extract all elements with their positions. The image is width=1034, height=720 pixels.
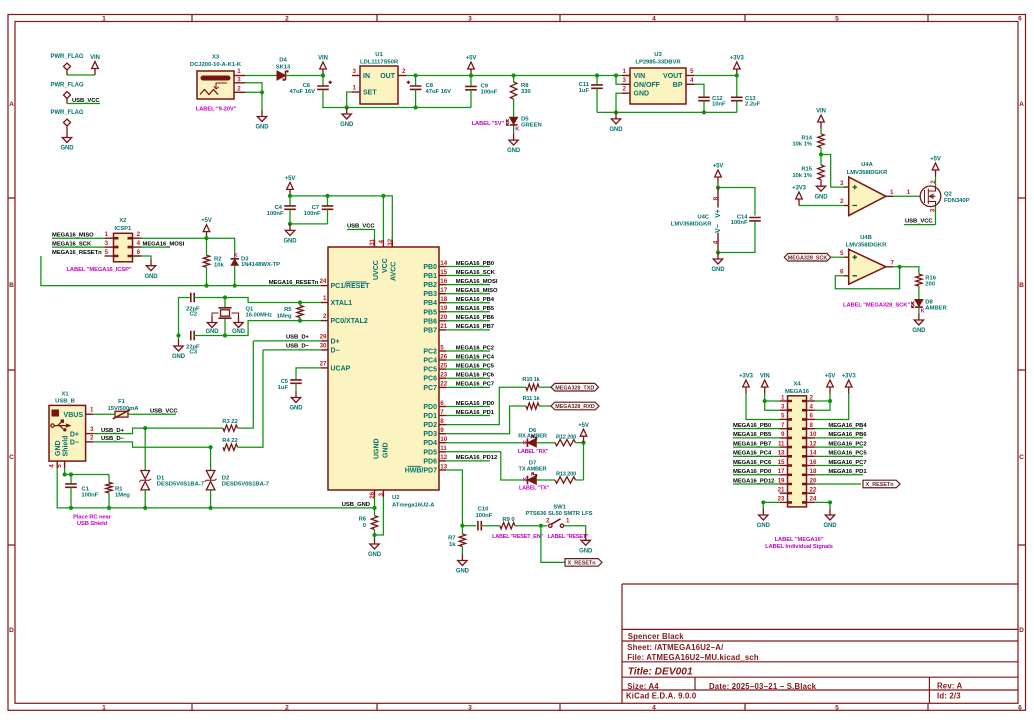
pin 22 of X4 — [807, 492, 815, 494]
svg-text:GND: GND — [609, 127, 623, 133]
svg-text:11: 11 — [440, 445, 447, 452]
svg-text:MEGA16: MEGA16 — [785, 389, 810, 395]
svg-text:C10: C10 — [478, 507, 489, 513]
svg-text:30: 30 — [320, 342, 327, 349]
capacitor C9 100nF — [470, 76, 472, 87]
svg-text:LABEL "MEGA16_ICSP": LABEL "MEGA16_ICSP" — [66, 267, 131, 273]
svg-text:U4C: U4C — [697, 214, 709, 220]
svg-text:PB6: PB6 — [423, 318, 437, 325]
power symbol VIN at C6 — [320, 62, 327, 76]
svg-text:1uF: 1uF — [579, 88, 590, 94]
junction C2/C3 gnd — [176, 333, 180, 337]
svg-text:4: 4 — [810, 404, 814, 411]
svg-text:16: 16 — [810, 459, 817, 466]
capacitor C10 100nF — [478, 521, 481, 531]
wire +3V3 to X4 pin5 — [746, 394, 780, 420]
svg-text:GND: GND — [172, 354, 186, 360]
wire SW1 to gnd — [564, 526, 586, 534]
capacitor C4 100nF — [289, 196, 291, 206]
capacitor C1 100nF — [70, 475, 72, 484]
pin 32 AVCC of U2 — [391, 240, 393, 247]
capacitor C8 47uF 16V — [415, 76, 417, 86]
svg-text:GREEN: GREEN — [521, 122, 542, 128]
wire R4 to riser — [238, 350, 264, 447]
pin 16 of X4 — [807, 465, 815, 467]
pin 6 PD0 of U2 — [439, 406, 446, 408]
svg-text:7: 7 — [440, 409, 444, 416]
pin 1 VIN of U3 — [622, 75, 630, 77]
pin 4 BP of U3 — [686, 83, 694, 85]
svg-text:LABEL "RESET": LABEL "RESET" — [548, 534, 589, 540]
svg-text:10k 1%: 10k 1% — [792, 173, 812, 179]
power symbol +5V main — [468, 62, 475, 76]
svg-text:2: 2 — [402, 68, 406, 75]
wire MEGA16_PC5 X4 — [815, 455, 863, 457]
svg-text:VIN: VIN — [318, 56, 328, 62]
svg-text:R6: R6 — [359, 517, 367, 523]
svg-text:4: 4 — [49, 464, 56, 468]
resistor R5 1Meg — [297, 306, 303, 318]
svg-text:U1: U1 — [375, 52, 383, 58]
pin 18 PB4 of U2 — [439, 302, 446, 304]
wire MEGA16_PB0 — [446, 266, 490, 268]
wire MEGA16_PD12 X4 — [733, 483, 780, 485]
ground below R6 — [370, 538, 379, 550]
pin 7 output of U4B — [886, 266, 893, 268]
svg-text:B: B — [1019, 282, 1024, 289]
svg-text:19: 19 — [778, 477, 785, 484]
svg-text:R5: R5 — [284, 307, 292, 313]
svg-text:LABEL "9-20V": LABEL "9-20V" — [196, 107, 237, 113]
svg-text:X2: X2 — [119, 218, 127, 224]
svg-text:1: 1 — [907, 189, 911, 196]
wire C10 to R9 — [481, 525, 500, 527]
power symbol +3V3 at U3 — [734, 62, 741, 76]
svg-text:2: 2 — [137, 231, 141, 238]
wire MEGA16_PC6 X4 — [733, 465, 780, 467]
svg-text:3: 3 — [840, 180, 844, 187]
junction VCC drop — [381, 194, 385, 198]
svg-text:3: 3 — [353, 68, 357, 75]
pin 7 of X4 — [780, 428, 788, 430]
svg-text:2.2uF: 2.2uF — [745, 102, 761, 108]
wire C2 right to XTAL1 node — [194, 298, 321, 303]
wire MEGA16_MISO — [446, 293, 490, 295]
wire VCC drop — [382, 196, 384, 240]
ground below C4 — [285, 224, 294, 236]
junction C12 gnd — [702, 110, 706, 114]
capacitor C12 10nF — [698, 97, 710, 100]
gnd rail under U3 — [597, 111, 737, 113]
svg-text:5: 5 — [840, 250, 844, 257]
capacitor C2 22pF — [191, 293, 194, 303]
svg-text:UCAP: UCAP — [331, 365, 351, 372]
svg-text:X3: X3 — [212, 55, 220, 61]
pin 1 XTAL1 of U2 — [321, 302, 328, 304]
svg-text:GND: GND — [144, 274, 158, 280]
wire ON/OFF — [616, 76, 622, 85]
transistor Q2 FDN340P — [920, 186, 941, 207]
pin 20 of X4 — [807, 483, 815, 485]
wire R3 to riser — [238, 341, 254, 428]
svg-text:PD3: PD3 — [423, 431, 437, 438]
junction D2 top — [209, 445, 213, 449]
junction R1 gnd — [107, 506, 111, 510]
wire PD5 to D7 — [446, 452, 528, 480]
pin 3 + input of U4A — [844, 186, 849, 188]
hierarchical label MEGA328_SCK — [784, 254, 830, 262]
pin 20 PB6 of U2 — [439, 320, 446, 322]
hierarchical label X_RESETn at X4 — [863, 480, 900, 488]
svg-text:PD6: PD6 — [423, 458, 437, 465]
svg-text:SW1: SW1 — [553, 505, 566, 511]
wire MEGA16_PD1 X4 — [815, 474, 863, 476]
svg-text:AVCC: AVCC — [391, 262, 398, 281]
pin 19 PB5 of U2 — [439, 311, 446, 313]
ground below PWR_FLAG3 — [62, 131, 71, 143]
svg-text:1: 1 — [781, 394, 785, 401]
svg-text:1: 1 — [102, 16, 106, 23]
junction R2 bottom — [204, 284, 208, 288]
wire MEGA16_PB7 — [446, 329, 490, 331]
svg-text:5: 5 — [56, 464, 63, 468]
junction crystal bottom — [223, 333, 227, 337]
svg-text:GND: GND — [368, 552, 382, 558]
pin 1 output of U4A — [886, 195, 893, 197]
wire C3 right to XTAL2 node — [194, 321, 321, 336]
wire X3 pin3 to pin2 node — [245, 83, 262, 93]
wire Q2 source to USB_VCC — [935, 207, 937, 225]
svg-text:GND: GND — [634, 91, 650, 98]
pin 27 UCAP of U2 — [321, 367, 328, 369]
svg-text:27: 27 — [320, 360, 327, 367]
ground left of crystal — [207, 316, 216, 328]
svg-text:LMV358IDGKR: LMV358IDGKR — [847, 170, 888, 176]
wire PWR_FLAG1 to VIN — [67, 74, 95, 76]
svg-text:24: 24 — [810, 496, 817, 503]
pin 10 of X4 — [807, 437, 815, 439]
svg-text:GND: GND — [232, 329, 246, 335]
svg-text:Id: 2/3: Id: 2/3 — [937, 691, 961, 700]
svg-text:PC2: PC2 — [423, 349, 437, 356]
junction crystal top — [223, 295, 227, 299]
crystal Q1 16.00MHz — [224, 298, 226, 308]
wire MEGA16_PD1 — [446, 415, 490, 417]
wire R14 to R15 — [820, 148, 822, 165]
wire X3 pin2 — [245, 91, 262, 93]
svg-text:24: 24 — [320, 278, 327, 285]
power symbol VIN at X4 — [761, 380, 768, 394]
wire C2 left to gnd corner — [179, 298, 191, 336]
pin 5 + input of U4B — [844, 256, 849, 258]
svg-text:PB4: PB4 — [423, 300, 437, 307]
pin 26 PC4 of U2 — [439, 359, 446, 361]
pin 21 of X4 — [780, 492, 788, 494]
pin 2 OUT of U1 — [398, 75, 406, 77]
wire R2 node to D3 top — [207, 238, 235, 258]
svg-text:R3 22: R3 22 — [222, 419, 238, 425]
svg-text:R13 200: R13 200 — [556, 472, 576, 478]
svg-text:21: 21 — [440, 323, 447, 330]
pin 4 of X4 — [807, 409, 815, 411]
svg-text:4: 4 — [378, 240, 385, 244]
svg-text:XTAL1: XTAL1 — [331, 300, 353, 307]
wire C14 bottom to U4C V- — [718, 221, 755, 253]
svg-text:PC0/XTAL2: PC0/XTAL2 — [331, 318, 368, 325]
svg-text:15: 15 — [440, 269, 447, 276]
svg-text:LDL1117S50R: LDL1117S50R — [360, 60, 399, 66]
wire MEGA16_PB4 — [446, 302, 490, 304]
svg-text:PB5: PB5 — [423, 309, 437, 316]
wire USB_VCC — [67, 103, 100, 105]
svg-text:MEGA328_RXD: MEGA328_RXD — [555, 404, 595, 410]
svg-text:R9 0: R9 0 — [502, 517, 515, 523]
capacitor C13 2.2uF — [736, 76, 738, 98]
svg-text:10k 1%: 10k 1% — [792, 142, 812, 148]
svg-text:8: 8 — [810, 422, 814, 429]
pin 10 PD4 of U2 — [439, 442, 446, 444]
svg-text:1: 1 — [237, 68, 241, 75]
wire MEGA16_PB5 — [446, 311, 490, 313]
pin 13 of X4 — [780, 455, 788, 457]
svg-text:3: 3 — [623, 77, 627, 84]
pin 7 PD1 of U2 — [439, 415, 446, 417]
svg-text:10k: 10k — [214, 263, 224, 269]
pin 14 PB0 of U2 — [439, 266, 446, 268]
svg-text:Q2: Q2 — [944, 191, 953, 197]
wire U1 OUT main +5V line — [406, 75, 630, 77]
svg-text:ICSP1: ICSP1 — [114, 226, 132, 232]
svg-text:2: 2 — [323, 313, 327, 320]
wire UGND pin to rail — [374, 497, 376, 508]
svg-text:+3V3: +3V3 — [842, 374, 857, 380]
ground below C5 — [291, 391, 300, 403]
wire +3V3 to X4 pin6 — [815, 394, 849, 420]
svg-text:LMV358IDGKR: LMV358IDGKR — [671, 221, 712, 227]
svg-text:29: 29 — [320, 333, 327, 340]
junction D1 gnd — [143, 506, 147, 510]
svg-text:100nF: 100nF — [267, 211, 284, 217]
junction D2 gnd — [209, 506, 213, 510]
svg-text:5: 5 — [781, 413, 785, 420]
svg-text:C2: C2 — [190, 312, 198, 318]
wire MEGA16_PC4 X4 — [733, 455, 780, 457]
wire U4A out to Q2 gate — [893, 195, 921, 197]
svg-text:USB_D−: USB_D− — [286, 344, 310, 350]
wire PD2 to R10 row — [446, 387, 526, 424]
svg-text:Size: A4: Size: A4 — [627, 682, 659, 691]
svg-text:R16: R16 — [925, 275, 936, 281]
svg-text:2: 2 — [285, 16, 289, 23]
pin 1 of X2 — [105, 237, 114, 239]
svg-text:6: 6 — [1018, 704, 1022, 711]
svg-text:C: C — [1019, 454, 1024, 461]
junction XTAL1/R5 — [298, 300, 302, 304]
resistor R2 10k — [206, 238, 208, 255]
wire U4B out to R16 — [893, 267, 919, 274]
resistor R10 1k — [526, 384, 539, 390]
svg-text:USB_D−: USB_D− — [101, 436, 125, 442]
svg-text:+3V3: +3V3 — [792, 186, 807, 192]
wire U2 GND pin loop — [375, 497, 384, 535]
junction R7 — [460, 524, 464, 528]
pin 2 - input of U4A — [844, 205, 849, 207]
wire X4 pin20 to X_RESETn — [815, 483, 861, 485]
svg-text:LABEL "RX": LABEL "RX" — [518, 449, 549, 455]
svg-text:PD5: PD5 — [423, 449, 437, 456]
svg-text:4: 4 — [652, 16, 656, 23]
pin 6 - input of U4B — [844, 275, 849, 277]
wire U4C top to C14 — [718, 188, 755, 216]
svg-text:17: 17 — [440, 287, 447, 294]
junction VIN pin1 — [763, 399, 767, 403]
junction ON/OFF tap — [614, 73, 618, 77]
ground below U1 — [342, 108, 351, 120]
svg-text:16.00MHz: 16.00MHz — [246, 312, 273, 318]
wire X3 gnd drop — [261, 92, 263, 110]
svg-text:PD1: PD1 — [423, 413, 437, 420]
resistor R9 0 — [500, 523, 515, 529]
svg-text:23: 23 — [778, 496, 785, 503]
wire MEGA16_PB7 X4 — [733, 446, 780, 448]
svg-text:PTS636 SL50 SMTR LFS: PTS636 SL50 SMTR LFS — [525, 511, 592, 517]
svg-text:+5V: +5V — [578, 423, 589, 429]
ground left below X4 — [759, 509, 768, 521]
pin 3 of X4 — [780, 409, 788, 411]
pin 3 IN of U1 — [352, 75, 360, 77]
svg-text:3: 3 — [237, 76, 241, 83]
pin 3 of X2 — [105, 246, 114, 248]
wire UCAP to C5 — [296, 368, 321, 380]
svg-text:LABEL "5V": LABEL "5V" — [472, 121, 505, 127]
wire R7 to gnd — [461, 547, 463, 555]
svg-text:PB3: PB3 — [423, 291, 437, 298]
wire VOUT to +3V3 — [694, 75, 737, 77]
pin 19 of X4 — [780, 483, 788, 485]
svg-text:GND: GND — [757, 523, 771, 529]
svg-text:Rev: A: Rev: A — [937, 682, 963, 691]
wire D1 to gnd rail — [144, 490, 146, 508]
svg-text:PC5: PC5 — [423, 367, 437, 374]
svg-text:PC6: PC6 — [423, 376, 437, 383]
capacitor C11 1uF — [596, 76, 598, 85]
pin 6 of X4 — [807, 418, 815, 420]
junction U3 gnd — [614, 110, 618, 114]
hierarchical label X_RESETn near SW1 — [565, 559, 602, 567]
svg-text:V−: V− — [715, 224, 722, 233]
junction C4 gnd — [288, 222, 292, 226]
svg-text:GND: GND — [507, 148, 521, 154]
svg-text:MEGA16_MISO: MEGA16_MISO — [52, 232, 94, 238]
wire X1 shield node — [65, 468, 109, 474]
wire D+ to R3 — [145, 427, 223, 429]
svg-text:SET: SET — [363, 90, 377, 97]
pin 24 PC1/RESET of U2 — [321, 285, 328, 287]
svg-text:1N4148WX-TP: 1N4148WX-TP — [241, 262, 280, 268]
IC U2 ATmega16U2-A — [328, 247, 439, 490]
junction XTAL2/R5 — [298, 319, 302, 323]
svg-text:V+: V+ — [715, 209, 722, 218]
wire R7 node to C10 — [462, 525, 476, 527]
svg-text:25: 25 — [440, 362, 447, 369]
svg-text:18: 18 — [810, 468, 817, 475]
wire BP to C12 — [694, 84, 704, 97]
wire U4B feedback loop — [835, 267, 899, 289]
svg-text:19: 19 — [440, 305, 447, 312]
svg-text:VIN: VIN — [90, 55, 100, 61]
pin 23 PC6 of U2 — [439, 377, 446, 379]
resistor R7 1k — [461, 526, 463, 534]
svg-text:Spencer Black: Spencer Black — [628, 632, 685, 641]
svg-text:1k: 1k — [449, 542, 456, 548]
wire R12 to +5V node — [576, 442, 584, 444]
wire +5V to X4 pins 2,4 — [815, 394, 830, 411]
svg-text:X_RESETn: X_RESETn — [866, 482, 894, 488]
svg-text:PD0: PD0 — [423, 404, 437, 411]
wire D6 to R12 — [536, 442, 555, 444]
svg-text:USB_VCC: USB_VCC — [905, 219, 933, 225]
svg-text:D+: D+ — [70, 431, 79, 438]
pin 24 of X4 — [807, 501, 815, 503]
junction C1 gnd — [69, 506, 73, 510]
LED D8 AMBER — [915, 300, 923, 307]
svg-text:11: 11 — [778, 440, 785, 447]
svg-text:26: 26 — [440, 353, 447, 360]
junction R6 gnd — [372, 533, 376, 537]
hierarchical label MEGA328_RXD — [551, 402, 599, 410]
svg-text:LABEL "TX": LABEL "TX" — [519, 485, 550, 491]
svg-text:1: 1 — [566, 518, 570, 525]
wire MEGA16_PC4 — [446, 359, 490, 361]
wire MEGA16_MOSI — [446, 284, 490, 286]
svg-text:8: 8 — [712, 196, 719, 200]
svg-text:USB Shield: USB Shield — [77, 521, 108, 527]
svg-text:+5V: +5V — [930, 157, 941, 163]
junction C8 gnd — [414, 105, 418, 109]
wire to gnd below C2/C3 — [178, 336, 180, 340]
pin 4 GND of X1 — [56, 461, 58, 468]
svg-text:D4: D4 — [279, 58, 287, 64]
svg-text:Date: 2025−03−21 − S.Black: Date: 2025−03−21 − S.Black — [709, 682, 817, 691]
svg-text:DESD5V0S1BA-7: DESD5V0S1BA-7 — [222, 482, 270, 488]
capacitor C7 100nF — [327, 196, 329, 206]
svg-text:OUT: OUT — [380, 73, 396, 80]
TVS diode D1 DESD5V0S1BA-7 — [144, 428, 146, 470]
pin 29 D+ of U2 — [321, 340, 328, 342]
pin 15 PB1 of U2 — [439, 275, 446, 277]
svg-text:3: 3 — [378, 492, 385, 496]
svg-text:3: 3 — [90, 426, 94, 433]
svg-text:2: 2 — [810, 394, 814, 401]
wire PD7 to R7 node — [446, 470, 462, 526]
svg-text:DESD5V0S1BA-7: DESD5V0S1BA-7 — [157, 482, 205, 488]
svg-text:GND: GND — [255, 125, 269, 131]
svg-text:R15: R15 — [801, 167, 812, 173]
svg-text:D2: D2 — [222, 476, 230, 482]
svg-text:MEGA16_RESETn: MEGA16_RESETn — [269, 280, 319, 286]
svg-text:MEGA16_SCK: MEGA16_SCK — [52, 241, 92, 247]
wire R10 to MEGA328_TXD — [539, 386, 551, 388]
gnd rail USB_GND — [57, 468, 374, 508]
junction D1 top — [143, 426, 147, 430]
wire MEGA16_PC6 — [446, 377, 490, 379]
svg-text:GND: GND — [814, 194, 828, 200]
svg-text:47uF 16V: 47uF 16V — [426, 89, 452, 95]
svg-text:6: 6 — [1018, 16, 1022, 23]
svg-text:2: 2 — [623, 86, 627, 93]
svg-text:17: 17 — [778, 468, 785, 475]
svg-text:2: 2 — [285, 704, 289, 711]
